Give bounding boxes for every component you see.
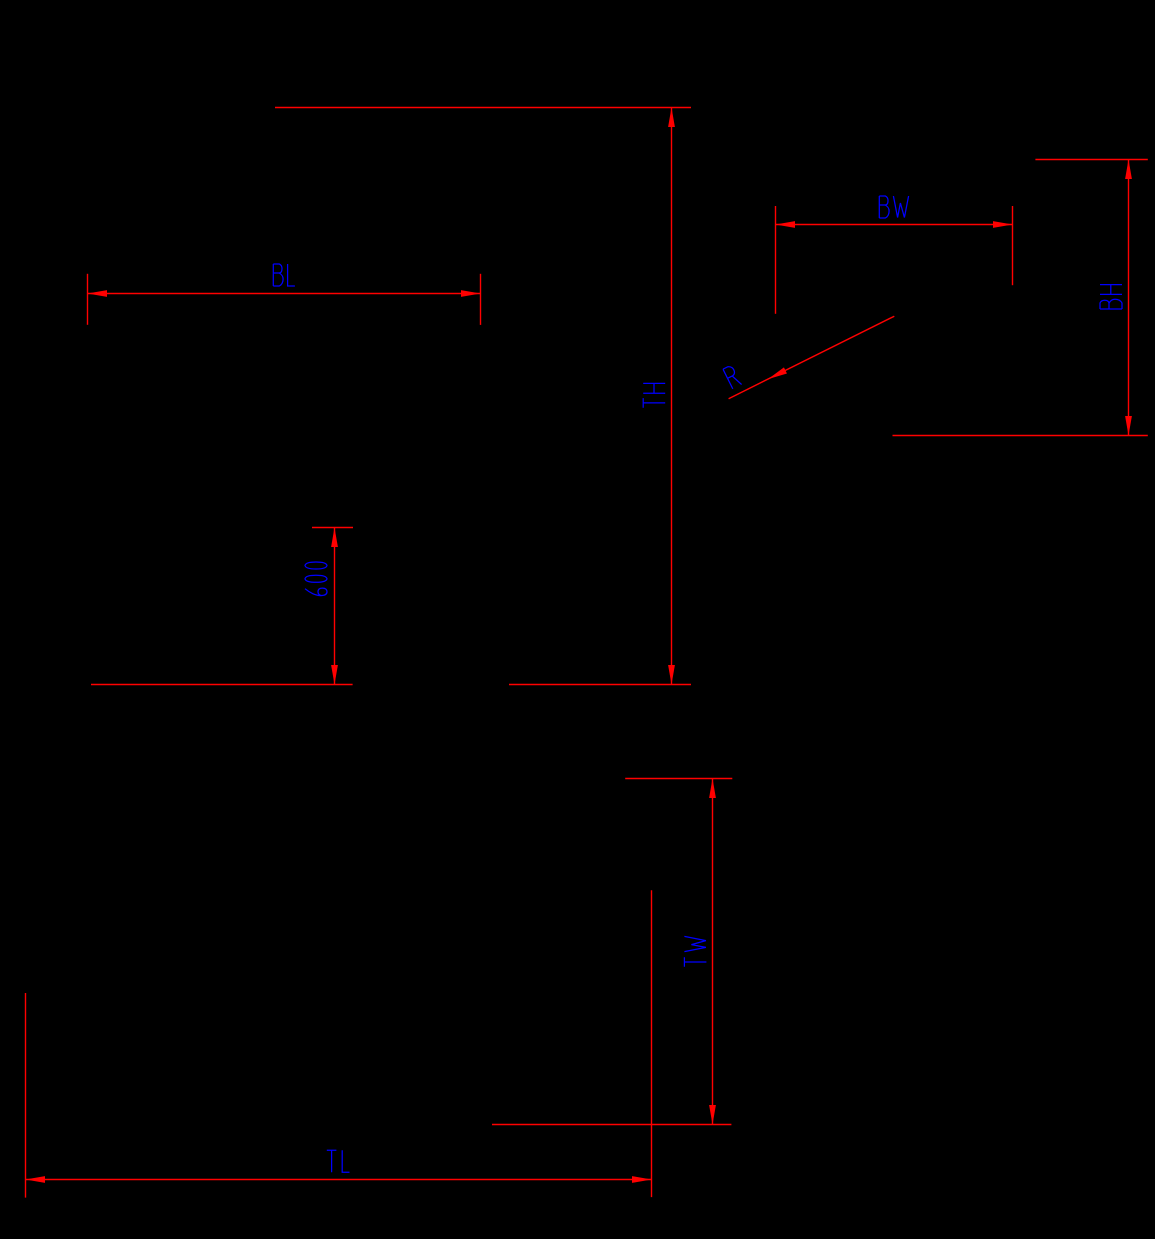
- label R (rotated along leader): [723, 365, 742, 389]
- BW right arrowhead: [993, 221, 1013, 228]
- TW top reference line: [625, 778, 732, 780]
- TL right extension line: [651, 890, 653, 1197]
- BH top arrowhead: [1125, 160, 1132, 180]
- TW bottom arrowhead: [709, 1105, 716, 1125]
- TL left arrowhead: [26, 1176, 46, 1183]
- label TL: [327, 1150, 350, 1172]
- BH top reference line: [1035, 159, 1147, 161]
- 600 bottom arrowhead: [331, 665, 338, 685]
- R leader arrowhead: [766, 367, 786, 382]
- TH top arrowhead: [668, 108, 675, 128]
- BW left arrowhead: [776, 221, 796, 228]
- BL dimension line: [88, 293, 481, 295]
- BL right arrowhead: [461, 290, 481, 297]
- TL dimension line: [26, 1179, 652, 1181]
- TL left extension line: [25, 993, 27, 1198]
- 600 top reference line: [312, 527, 353, 529]
- TH bottom arrowhead: [668, 665, 675, 685]
- BH dimension line: [1128, 160, 1130, 436]
- BW right extension line: [1012, 206, 1014, 285]
- TW dimension line: [712, 779, 714, 1125]
- TH bottom reference line: [509, 684, 691, 686]
- R leader line: [729, 316, 895, 399]
- TL right arrowhead: [632, 1176, 652, 1183]
- 600 bottom reference line: [91, 684, 353, 686]
- label BH (rotated): [1100, 285, 1122, 309]
- label BW: [879, 196, 908, 218]
- label TH (rotated): [643, 383, 665, 407]
- 600 top arrowhead: [331, 528, 338, 548]
- label BL: [273, 264, 295, 286]
- label TW (rotated): [684, 936, 706, 966]
- BW left extension line: [775, 206, 777, 314]
- BL right extension line: [480, 274, 482, 325]
- BW dimension line: [776, 224, 1013, 226]
- TH top reference line: [275, 107, 691, 109]
- TW bottom reference line: [492, 1124, 731, 1126]
- label 600 (rotated): [305, 562, 327, 596]
- TH dimension line: [671, 108, 673, 685]
- 600 dimension line: [334, 528, 336, 685]
- BH bottom arrowhead: [1125, 416, 1132, 436]
- BL left extension line: [87, 274, 89, 325]
- BH bottom reference line: [893, 435, 1148, 437]
- BL left arrowhead: [88, 290, 108, 297]
- TW top arrowhead: [709, 779, 716, 799]
